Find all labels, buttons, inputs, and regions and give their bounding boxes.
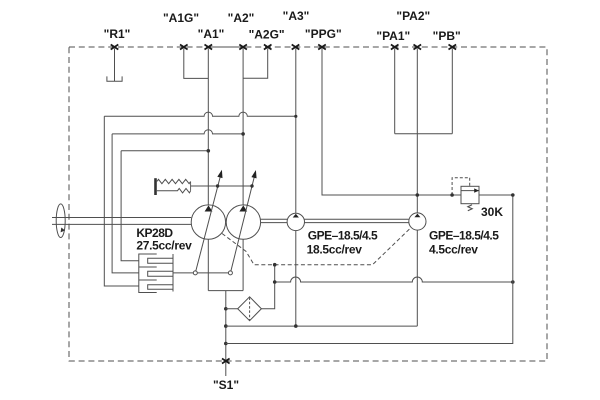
rotation arrowhead bbox=[61, 228, 65, 233]
spring 1 zigzag bbox=[157, 179, 191, 183]
svg-text:"PA2": "PA2" bbox=[396, 9, 430, 23]
pump P4 outlet triangle bbox=[414, 214, 420, 218]
enclosure dashed border bbox=[69, 47, 547, 361]
svg-text:"A1G": "A1G" bbox=[163, 11, 199, 25]
pump P3 suction vertical bbox=[295, 231, 297, 327]
wire pivot link bbox=[197, 272, 228, 274]
port PPG bbox=[318, 45, 326, 50]
wire drain collector (hops over pump3 and pump4 suctions) bbox=[275, 277, 513, 282]
control block comb left fingers bbox=[139, 253, 157, 255]
pump P3 circle (GPE-18.5) bbox=[287, 213, 304, 230]
svg-text:"S1": "S1" bbox=[213, 378, 239, 392]
control block comb right finger 2 bbox=[148, 271, 173, 276]
relief valve 30K pilot dashed bbox=[452, 178, 470, 195]
junction relief branch on PA2 line bbox=[416, 193, 420, 197]
drive shaft left double line bbox=[52, 217, 191, 219]
svg-text:"PB": "PB" bbox=[433, 29, 461, 43]
junction line1-A3 bbox=[294, 115, 297, 118]
wire comb to pivot link bbox=[173, 272, 193, 274]
drain line dashed bbox=[222, 228, 411, 265]
wire PPG down and right to relief valve bbox=[322, 49, 461, 196]
pump P1 displacement arrow bbox=[196, 177, 221, 272]
wire suction manifold bbox=[226, 325, 417, 327]
wire PA1 drop bbox=[394, 49, 396, 134]
wire left vertical 1 to control block bbox=[104, 116, 139, 286]
wire PA2 vertical to pump 4 bbox=[416, 49, 418, 213]
relief valve 30K internal line bbox=[461, 190, 479, 192]
svg-text:"A2": "A2" bbox=[228, 11, 255, 25]
wire left vertical 3 to control block bbox=[121, 151, 139, 261]
control block comb right finger 3 bbox=[148, 285, 173, 290]
svg-text:30K: 30K bbox=[481, 205, 503, 219]
junction pilot tap bbox=[450, 193, 454, 197]
rotation ellipse bbox=[56, 204, 65, 238]
pump P4 circle (GPE-4.5) bbox=[409, 213, 426, 230]
junction collector right bbox=[511, 280, 515, 284]
svg-text:GPE–18.5/4.5: GPE–18.5/4.5 bbox=[308, 229, 378, 243]
wire A3 vertical to pump 3 bbox=[295, 49, 297, 214]
relief valve 30K body bbox=[461, 186, 479, 203]
wire suction U bottom bbox=[208, 290, 243, 292]
svg-text:GPE–18.5/4.5: GPE–18.5/4.5 bbox=[429, 229, 499, 243]
pump P2 suction right vertical bbox=[242, 239, 244, 290]
pump P4 suction vertical bbox=[416, 230, 418, 326]
wire A2G to A2 bbox=[243, 49, 268, 79]
pivot circle 2 bbox=[228, 271, 232, 275]
svg-text:27.5cc/rev: 27.5cc/rev bbox=[136, 239, 192, 253]
svg-text:"A2G": "A2G" bbox=[249, 28, 285, 42]
pump P2 displacement arrow bbox=[231, 177, 254, 271]
spring anchor bar bbox=[154, 178, 157, 195]
spring output bar bbox=[190, 182, 192, 191]
wire PB drop bbox=[451, 49, 453, 134]
junction pump3 suction bbox=[294, 324, 298, 328]
drive shaft pump2-pump3 bbox=[261, 218, 288, 220]
wire relief return bbox=[226, 195, 513, 344]
control block comb right finger 1 bbox=[148, 258, 173, 263]
wire A2 vertical to pump 2 bbox=[242, 49, 244, 206]
port A2 bbox=[239, 45, 247, 50]
control block comb left bar bbox=[138, 254, 140, 294]
control block comb right bar bbox=[172, 254, 174, 292]
port R1 bbox=[111, 45, 119, 50]
pump P3 outlet triangle bbox=[293, 214, 299, 218]
port A1G bbox=[180, 45, 188, 50]
svg-text:"A3": "A3" bbox=[283, 9, 310, 23]
junction collector left bbox=[273, 280, 277, 284]
junction manifold bbox=[224, 324, 228, 328]
pump P2 outlet triangle bbox=[239, 205, 247, 211]
junction filter inlet bbox=[224, 307, 228, 311]
svg-text:18.5cc/rev: 18.5cc/rev bbox=[307, 242, 363, 256]
port A2G bbox=[264, 45, 272, 50]
port S1 bbox=[222, 359, 230, 364]
port PA2 bbox=[414, 45, 422, 50]
junction drain-drop bbox=[273, 263, 277, 267]
wire left vertical 2 to control block bbox=[112, 134, 139, 273]
filter F1 diamond bbox=[238, 297, 262, 321]
port A3 bbox=[292, 45, 300, 50]
junction control-arrow1 bbox=[216, 184, 219, 187]
junction control-arrow2 bbox=[250, 184, 253, 187]
junction relief return corner bbox=[511, 193, 515, 197]
pump P1 outlet triangle bbox=[205, 205, 213, 211]
svg-text:4.5cc/rev: 4.5cc/rev bbox=[429, 242, 478, 256]
wire A1G to A1 bbox=[184, 49, 209, 79]
wire R1 drop bbox=[114, 49, 116, 82]
pump P1 suction left vertical bbox=[207, 239, 209, 290]
spring 2 line and zigzag bbox=[157, 189, 191, 193]
plug symbol under R1 bbox=[107, 76, 122, 81]
port PB bbox=[449, 45, 457, 50]
wire loop line 3 (A1 to left side) bbox=[121, 150, 208, 152]
wire loop line 1 (A3 to left side, hops over A1 A2) bbox=[104, 112, 295, 116]
wire loop line 2 (A2 to left side, hop over A1) bbox=[112, 130, 243, 134]
wire solid border segment A1-A2 bbox=[208, 46, 243, 48]
pivot circle 1 bbox=[193, 271, 197, 275]
port PA1 bbox=[391, 45, 399, 50]
pump P1 circle (KP28D section 1) bbox=[191, 205, 225, 239]
wire S1 main suction vertical bbox=[225, 291, 227, 376]
wire A1 vertical to pump 1 bbox=[207, 49, 209, 206]
drive shaft pump3-pump4 bbox=[305, 218, 409, 220]
junction line3-A1 bbox=[207, 149, 211, 153]
svg-text:"R1": "R1" bbox=[104, 27, 131, 41]
wire PA1-PB bottom bar bbox=[395, 133, 453, 135]
port A1 bbox=[205, 45, 213, 50]
filter F1 outlet wire bbox=[261, 265, 274, 309]
junction return bbox=[224, 342, 228, 346]
relief valve 30K internal arrow bbox=[474, 188, 479, 192]
filter F1 element dashed bbox=[249, 298, 251, 321]
relief valve 30K spring bbox=[468, 205, 472, 211]
filter F1 inlet wire bbox=[226, 308, 238, 310]
svg-text:"A1": "A1" bbox=[198, 27, 225, 41]
pump P2 circle (KP28D section 2) bbox=[226, 205, 260, 239]
wire control line to arrows bbox=[191, 185, 252, 187]
svg-text:"PPG": "PPG" bbox=[305, 27, 342, 41]
junction line2-A2 bbox=[241, 132, 245, 136]
svg-text:"PA1": "PA1" bbox=[376, 29, 410, 43]
